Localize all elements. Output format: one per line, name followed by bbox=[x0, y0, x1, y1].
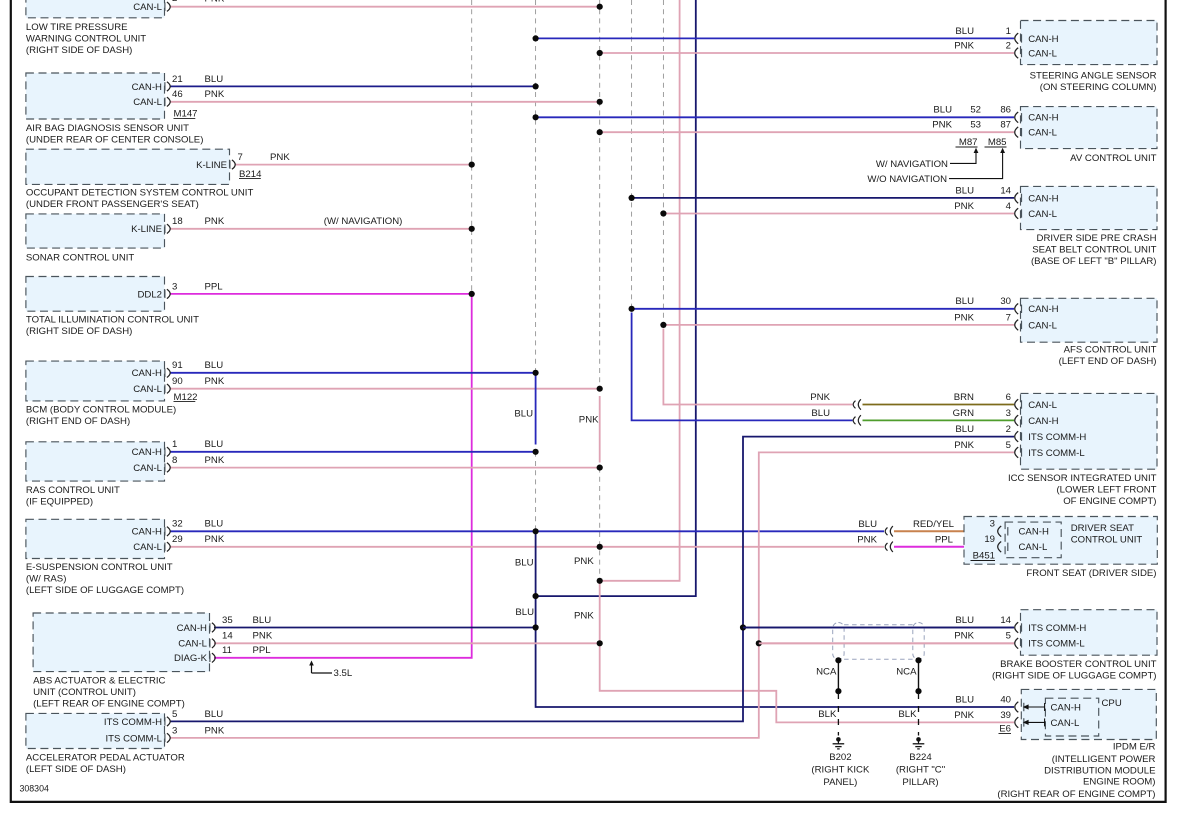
svg-text:PNK: PNK bbox=[205, 216, 225, 227]
svg-text:(LEFT REAR OF ENGINE COMPT): (LEFT REAR OF ENGINE COMPT) bbox=[33, 698, 185, 709]
svg-text:CAN-L: CAN-L bbox=[1028, 320, 1057, 331]
svg-text:B202: B202 bbox=[829, 752, 851, 763]
svg-text:PPL: PPL bbox=[205, 281, 224, 292]
svg-text:14: 14 bbox=[222, 631, 233, 642]
caption ground B224 bbox=[896, 752, 945, 788]
inline connector on ICC CAN-H wire bbox=[853, 417, 855, 425]
svg-text:BLU: BLU bbox=[955, 694, 974, 705]
svg-text:2: 2 bbox=[172, 0, 177, 4]
svg-text:PNK: PNK bbox=[954, 631, 974, 642]
caption: BRAKE BOOSTER CONTROL UNIT bbox=[992, 659, 1157, 682]
wire PNK: E-SUSPENSION CAN-L pin29 to inline connector bbox=[170, 546, 884, 548]
svg-text:1: 1 bbox=[172, 439, 177, 450]
node: ABS CAN-H on rail536 bbox=[533, 624, 539, 630]
svg-text:W/O NAVIGATION: W/O NAVIGATION bbox=[867, 174, 947, 185]
control unit box: STEERING ANGLE SENSOR bbox=[1021, 21, 1158, 65]
svg-text:(W/ RAS): (W/ RAS) bbox=[26, 574, 67, 585]
control unit box: IPDM E/R bbox=[1021, 689, 1156, 739]
ground symbol B224 bbox=[913, 737, 925, 749]
control unit box: DRIVER SEAT CONTROL UNIT inner bbox=[1005, 522, 1061, 558]
svg-text:OCCUPANT DETECTION SYSTEM CONT: OCCUPANT DETECTION SYSTEM CONTROL UNIT bbox=[26, 188, 254, 199]
svg-text:K-LINE: K-LINE bbox=[196, 160, 227, 171]
svg-text:TOTAL ILLUMINATION CONTROL UNI: TOTAL ILLUMINATION CONTROL UNIT bbox=[26, 315, 199, 326]
svg-text:AIR BAG DIAGNOSIS SENSOR UNIT: AIR BAG DIAGNOSIS SENSOR UNIT bbox=[26, 123, 189, 134]
svg-text:1: 1 bbox=[1006, 26, 1011, 37]
wire BLK dashed to ground B224 bbox=[918, 693, 920, 736]
svg-text:ITS COMM-L: ITS COMM-L bbox=[1028, 448, 1085, 459]
node: PRE CRASH CAN-L on rail664 bbox=[660, 210, 666, 216]
svg-text:7: 7 bbox=[1006, 312, 1011, 323]
control unit box: BRAKE BOOSTER CONTROL UNIT bbox=[1021, 610, 1158, 656]
wire PNK: rail600 segment down, jog to IPDM CAN-L pin39 bbox=[600, 581, 1014, 723]
caption: OCCUPANT DETECTION SYSTEM CONTROL UNIT bbox=[26, 188, 254, 211]
control unit box: BCM (BODY CONTROL MODULE) bbox=[26, 361, 165, 401]
CAN-H blue bus vertical x=695.8 with corner to rail 536 bbox=[536, 0, 696, 596]
svg-text:DRIVER SEAT: DRIVER SEAT bbox=[1071, 523, 1134, 534]
svg-text:PPL: PPL bbox=[253, 645, 272, 656]
svg-text:11: 11 bbox=[222, 645, 232, 656]
wire BLU: BCM CAN-H pin91 to rail536 bbox=[170, 372, 536, 374]
svg-text:CAN-H: CAN-H bbox=[1028, 304, 1058, 315]
wire BLU: rail632 to AFS CONTROL UNIT CAN-H pin30 bbox=[632, 308, 1014, 310]
control unit box: E-SUSPENSION CONTROL UNIT bbox=[26, 519, 165, 558]
svg-text:K-LINE: K-LINE bbox=[131, 224, 162, 235]
svg-text:PNK: PNK bbox=[954, 440, 974, 451]
wire PNK re-stroke over shield (BRAKE BOOSTER ITS COMM-L) bbox=[759, 642, 1014, 644]
labels PNK/BLU left of ICC inline connectors bbox=[810, 392, 830, 419]
svg-text:CAN-L: CAN-L bbox=[133, 2, 162, 13]
svg-text:PNK: PNK bbox=[579, 414, 599, 425]
svg-text:BLK: BLK bbox=[818, 709, 837, 720]
svg-text:ITS COMM-L: ITS COMM-L bbox=[1028, 639, 1085, 650]
svg-text:BLU: BLU bbox=[205, 519, 224, 530]
svg-text:BRAKE BOOSTER CONTROL UNIT: BRAKE BOOSTER CONTROL UNIT bbox=[1000, 659, 1157, 670]
svg-text:CAN-L: CAN-L bbox=[133, 542, 162, 553]
svg-text:87: 87 bbox=[1000, 120, 1011, 131]
bus rail (dashed) x=599.7 upper bbox=[599, 0, 601, 389]
wire BLU: rail632 to DRIVER SIDE PRE CRASH CAN-H pin14 bbox=[632, 197, 1014, 199]
inline connector on DRIVER SEAT CAN-H wire bbox=[885, 528, 887, 536]
connector name M147 bbox=[174, 109, 198, 120]
svg-text:CAN-L: CAN-L bbox=[1051, 718, 1080, 729]
svg-text:35: 35 bbox=[222, 615, 233, 626]
wire PNK: rail600 segment BCM to RAS bbox=[599, 396, 601, 463]
wire BLU: AIR BAG CAN-H pin21 to rail536 bbox=[170, 85, 536, 87]
svg-text:91: 91 bbox=[172, 360, 183, 371]
svg-text:ACCELERATOR PEDAL ACTUATOR: ACCELERATOR PEDAL ACTUATOR bbox=[26, 753, 185, 764]
svg-text:5: 5 bbox=[172, 709, 177, 720]
ground symbol B202 bbox=[833, 737, 845, 749]
svg-text:IPDM E/R: IPDM E/R bbox=[1113, 742, 1156, 753]
svg-text:FRONT SEAT (DRIVER SIDE): FRONT SEAT (DRIVER SIDE) bbox=[1026, 568, 1156, 579]
node: blue bus joins rail536 bbox=[533, 593, 539, 599]
node: SONAR K-LINE on rail472 bbox=[469, 226, 475, 232]
svg-text:CAN-L: CAN-L bbox=[1028, 209, 1057, 220]
svg-text:CAN-L: CAN-L bbox=[178, 639, 207, 650]
wire BLU: rail536 segment E-SUSP down, corner right to IPDM CAN-H pin40 bbox=[536, 534, 1014, 707]
wire BLU: tap to BRAKE BOOSTER ITS COMM-H pin14 bbox=[743, 627, 1014, 629]
svg-text:PNK: PNK bbox=[857, 535, 877, 546]
control unit box: TOTAL ILLUMINATION CONTROL UNIT bbox=[26, 277, 165, 312]
wire BLU: rail536 segment BCM to RAS bbox=[535, 375, 537, 445]
wire PNK: OCCUPANT DETECTION K-LINE pin7 to rail472 bbox=[236, 164, 472, 166]
svg-text:CONTROL UNIT: CONTROL UNIT bbox=[1071, 535, 1143, 546]
svg-text:6: 6 bbox=[1006, 392, 1011, 403]
svg-text:46: 46 bbox=[172, 89, 183, 100]
svg-text:BCM (BODY CONTROL MODULE): BCM (BODY CONTROL MODULE) bbox=[26, 405, 176, 416]
connector name B214 bbox=[239, 169, 262, 180]
control unit box: DRIVER SIDE PRE CRASH SEAT BELT CONTROL UNIT bbox=[1021, 186, 1158, 229]
svg-text:ITS COMM-H: ITS COMM-H bbox=[104, 717, 162, 728]
control unit box: OCCUPANT DETECTION SYSTEM CONTROL UNIT bbox=[26, 149, 230, 184]
svg-text:ITS COMM-H: ITS COMM-H bbox=[1028, 432, 1086, 443]
wire PNK: rail600 to STEERING ANGLE SENSOR CAN-L pin2 bbox=[600, 52, 1014, 54]
CAN-L pink bus vertical x=679.6 with corner to rail 600 bbox=[600, 0, 680, 581]
wire RED/YEL: inline connector to DRIVER SEAT CAN-H pin3 bbox=[894, 530, 998, 532]
caption: ACCELERATOR PEDAL ACTUATOR bbox=[26, 753, 185, 776]
svg-text:2: 2 bbox=[1006, 424, 1011, 435]
wire BLU: rail536 to AV CONTROL UNIT CAN-H bbox=[536, 116, 1014, 118]
control unit box: AIR BAG DIAGNOSIS SENSOR UNIT bbox=[26, 73, 165, 119]
shield capsule at x=838.4 bbox=[833, 623, 844, 660]
svg-text:8: 8 bbox=[172, 455, 177, 466]
shield drain wire NCA at x=918.5 bbox=[918, 660, 920, 691]
svg-text:(W/ NAVIGATION): (W/ NAVIGATION) bbox=[324, 216, 403, 227]
node: E-SUSP CAN-H on rail536 bbox=[533, 528, 539, 534]
svg-text:(LEFT END OF DASH): (LEFT END OF DASH) bbox=[1059, 356, 1157, 367]
shield drain wire NCA at x=838.4 bbox=[837, 660, 839, 691]
wire BLU re-stroke over shield (BRAKE BOOSTER ITS COMM-H) bbox=[743, 627, 1014, 629]
svg-text:21: 21 bbox=[172, 74, 183, 85]
svg-text:7: 7 bbox=[238, 152, 243, 163]
wire PNK: BCM CAN-L pin90 to rail600 bbox=[170, 388, 600, 390]
svg-text:CAN-L: CAN-L bbox=[1028, 128, 1057, 139]
svg-text:(RIGHT SIDE OF LUGGAGE COMPT): (RIGHT SIDE OF LUGGAGE COMPT) bbox=[992, 670, 1157, 681]
svg-text:BLU: BLU bbox=[515, 557, 534, 568]
caption: LOW TIRE PRESSURE WARNING CONTROL UNIT bbox=[26, 22, 146, 56]
label DRIVER SEAT CONTROL UNIT bbox=[1071, 523, 1143, 546]
svg-text:PNK: PNK bbox=[205, 455, 225, 466]
svg-text:CAN-H: CAN-H bbox=[132, 527, 162, 538]
svg-text:ICC SENSOR INTEGRATED UNIT: ICC SENSOR INTEGRATED UNIT bbox=[1008, 473, 1157, 484]
svg-text:(INTELLIGENT POWER: (INTELLIGENT POWER bbox=[1052, 754, 1156, 765]
svg-text:(RIGHT REAR OF ENGINE COMPT): (RIGHT REAR OF ENGINE COMPT) bbox=[997, 789, 1155, 800]
svg-text:GRN: GRN bbox=[953, 408, 974, 419]
bus rail (dashed) x=599.7 mid bbox=[599, 468, 601, 581]
svg-text:5: 5 bbox=[1006, 440, 1011, 451]
connector names M87 M85 bbox=[956, 137, 1007, 148]
svg-text:B224: B224 bbox=[909, 752, 932, 763]
wire BRN: inline connector to ICC SENSOR CAN-L pin6 bbox=[863, 404, 1015, 406]
svg-text:BLK: BLK bbox=[898, 709, 917, 720]
annotation W/ NAVIGATION with arrow to M87 bbox=[876, 148, 979, 170]
svg-text:UNIT (CONTROL UNIT): UNIT (CONTROL UNIT) bbox=[33, 687, 136, 698]
shield dashed link line bottom bbox=[844, 658, 913, 660]
svg-text:(BASE OF LEFT "B" PILLAR): (BASE OF LEFT "B" PILLAR) bbox=[1031, 256, 1157, 267]
caption: STEERING ANGLE SENSOR bbox=[1030, 70, 1157, 93]
svg-text:CAN-H: CAN-H bbox=[132, 82, 162, 93]
caption: E-SUSPENSION CONTROL UNIT bbox=[26, 562, 184, 596]
node: E-SUSP CAN-L on rail600 bbox=[597, 544, 603, 550]
node: AV CAN-L on rail600 bbox=[597, 129, 603, 135]
svg-text:BLU: BLU bbox=[955, 296, 974, 307]
svg-text:2: 2 bbox=[1006, 40, 1011, 51]
svg-text:BLU: BLU bbox=[955, 424, 974, 435]
svg-text:PNK: PNK bbox=[205, 534, 225, 545]
svg-text:PNK: PNK bbox=[954, 40, 974, 51]
svg-text:PNK: PNK bbox=[205, 0, 225, 5]
caption ground B202 bbox=[811, 752, 870, 788]
node: BCM CAN-L on rail600 bbox=[597, 386, 603, 392]
svg-text:BLU: BLU bbox=[955, 615, 974, 626]
svg-text:DIAG-K: DIAG-K bbox=[174, 653, 208, 664]
node: OCCUPANT K-LINE on rail472 bbox=[469, 162, 475, 168]
svg-text:(LEFT SIDE OF DASH): (LEFT SIDE OF DASH) bbox=[26, 764, 126, 775]
inner box: CPU bbox=[1045, 698, 1098, 736]
svg-text:BLU: BLU bbox=[205, 360, 224, 371]
svg-text:CAN-H: CAN-H bbox=[1028, 416, 1058, 427]
inline connector on ICC CAN-L wire bbox=[853, 401, 855, 409]
svg-text:29: 29 bbox=[172, 534, 183, 545]
svg-text:(ON STEERING COLUMN): (ON STEERING COLUMN) bbox=[1040, 82, 1157, 93]
bus rail (dashed) x=631.6 bbox=[631, 0, 633, 309]
svg-text:LOW TIRE PRESSURE: LOW TIRE PRESSURE bbox=[26, 22, 128, 33]
svg-text:BLU: BLU bbox=[933, 105, 952, 116]
wire PNK: ABS CAN-L pin14 to rail600 bbox=[214, 642, 600, 644]
svg-text:(LEFT SIDE OF LUGGAGE COMPT): (LEFT SIDE OF LUGGAGE COMPT) bbox=[26, 585, 184, 596]
svg-text:BLU: BLU bbox=[205, 709, 224, 720]
svg-text:52: 52 bbox=[970, 105, 981, 116]
svg-text:STEERING ANGLE SENSOR: STEERING ANGLE SENSOR bbox=[1030, 70, 1157, 81]
svg-text:BLU: BLU bbox=[811, 408, 830, 419]
svg-text:M147: M147 bbox=[174, 109, 198, 120]
svg-text:CAN-H: CAN-H bbox=[1051, 702, 1081, 713]
svg-text:(RIGHT SIDE OF DASH): (RIGHT SIDE OF DASH) bbox=[26, 326, 132, 337]
wire BLU: E-SUSPENSION CAN-H pin32 to inline connector bbox=[170, 530, 884, 532]
svg-text:PPL: PPL bbox=[935, 535, 954, 546]
wire PNK: rail600 to AV CONTROL UNIT CAN-L bbox=[600, 131, 1014, 133]
control unit box: SONAR CONTROL UNIT bbox=[26, 214, 165, 248]
svg-text:308304: 308304 bbox=[20, 784, 49, 794]
svg-text:(RIGHT KICK: (RIGHT KICK bbox=[811, 764, 870, 775]
svg-text:3.5L: 3.5L bbox=[334, 668, 353, 679]
svg-text:PNK: PNK bbox=[574, 610, 594, 621]
node: AV CAN-H on rail536 bbox=[533, 114, 539, 120]
bus rail (dashed) x=663.4 bbox=[662, 0, 664, 325]
wire BLU: RAS CAN-H pin1 to rail536 bbox=[170, 451, 536, 453]
svg-text:(RIGHT END OF DASH): (RIGHT END OF DASH) bbox=[26, 416, 130, 427]
connector name M122 bbox=[174, 392, 198, 403]
wire PNK: AIR BAG CAN-L pin46 to rail600 bbox=[170, 101, 600, 103]
svg-text:PNK: PNK bbox=[270, 152, 290, 163]
svg-text:5: 5 bbox=[1006, 631, 1011, 642]
svg-text:PNK: PNK bbox=[205, 376, 225, 387]
connector name E6 bbox=[999, 724, 1012, 735]
svg-text:SEAT BELT CONTROL UNIT: SEAT BELT CONTROL UNIT bbox=[1032, 244, 1156, 255]
caption: ABS ACTUATOR & ELECTRIC UNIT bbox=[33, 675, 185, 709]
wire PPL: inline connector to DRIVER SEAT CAN-L pin19 bbox=[894, 546, 998, 548]
svg-text:AFS CONTROL UNIT: AFS CONTROL UNIT bbox=[1064, 345, 1157, 356]
bus rail (dashed) x=471.7 bbox=[471, 0, 473, 294]
svg-text:CAN-L: CAN-L bbox=[133, 463, 162, 474]
svg-text:53: 53 bbox=[970, 120, 981, 131]
wire GRN: inline connector to ICC SENSOR CAN-H pin3 bbox=[863, 419, 1015, 421]
wire BLK dashed to ground B202 bbox=[837, 693, 839, 736]
caption: ICC SENSOR INTEGRATED UNIT bbox=[1008, 473, 1157, 507]
svg-text:NCA: NCA bbox=[896, 667, 917, 678]
svg-text:3: 3 bbox=[172, 281, 177, 292]
svg-text:39: 39 bbox=[1000, 710, 1011, 721]
svg-text:PNK: PNK bbox=[205, 89, 225, 100]
svg-text:ITS COMM-L: ITS COMM-L bbox=[106, 733, 163, 744]
svg-text:CAN-L: CAN-L bbox=[133, 97, 162, 108]
node: STEERING CAN-H on rail536 bbox=[533, 35, 539, 41]
control unit box: RAS CONTROL UNIT bbox=[26, 442, 165, 481]
wire BLU: ACCELERATOR ITS COMM-H pin5 up vertical x743 to ICC ITS COMM-H pin2 bbox=[170, 437, 1014, 722]
svg-text:(UNDER REAR OF CENTER CONSOLE): (UNDER REAR OF CENTER CONSOLE) bbox=[26, 134, 204, 145]
annotation W/O NAVIGATION with arrow to M85 bbox=[867, 148, 1005, 185]
control unit box: LOW TIRE PRESSURE WARNING CONTROL UNIT bbox=[26, 0, 165, 18]
node: AIR BAG CAN-L on rail600 bbox=[597, 99, 603, 105]
svg-text:4: 4 bbox=[1006, 201, 1012, 212]
caption: BCM (BODY CONTROL MODULE) bbox=[26, 405, 176, 428]
svg-text:CAN-L: CAN-L bbox=[1028, 400, 1057, 411]
node: PRE CRASH CAN-H on rail632 bbox=[629, 195, 635, 201]
node: STEERING CAN-L on rail600 bbox=[597, 50, 603, 56]
node: pink bus joins rail600 bbox=[597, 578, 603, 584]
svg-text:18: 18 bbox=[172, 216, 183, 227]
svg-text:PILLAR): PILLAR) bbox=[902, 777, 938, 788]
wire PNK: rail664 segment down to ICC SENSOR CAN-L row bbox=[663, 329, 852, 405]
wire PNK: tap to BRAKE BOOSTER ITS COMM-L pin5 bbox=[759, 642, 1014, 644]
svg-text:PNK: PNK bbox=[954, 201, 974, 212]
wire PPL: TOTAL ILLUMINATION DDL2 pin3 down rail472 to ABS DIAG-K pin11 bbox=[170, 294, 472, 658]
svg-text:BLU: BLU bbox=[205, 74, 224, 85]
svg-text:BLU: BLU bbox=[205, 439, 224, 450]
svg-text:AV CONTROL UNIT: AV CONTROL UNIT bbox=[1070, 153, 1156, 164]
svg-text:CAN-H: CAN-H bbox=[132, 447, 162, 458]
svg-text:DISTRIBUTION MODULE: DISTRIBUTION MODULE bbox=[1044, 765, 1155, 776]
svg-text:RED/YEL: RED/YEL bbox=[913, 519, 955, 530]
svg-text:CAN-L: CAN-L bbox=[1028, 48, 1057, 59]
svg-text:NCA: NCA bbox=[816, 667, 837, 678]
svg-text:PNK: PNK bbox=[574, 556, 594, 567]
svg-text:90: 90 bbox=[172, 376, 183, 387]
svg-text:PNK: PNK bbox=[253, 631, 273, 642]
wire PNK: ACCELERATOR ITS COMM-L pin3 up vertical x759 to ICC ITS COMM-L pin5 bbox=[170, 452, 1014, 738]
connector name B451 bbox=[971, 551, 996, 562]
svg-text:CPU: CPU bbox=[1102, 698, 1122, 709]
svg-text:W/ NAVIGATION: W/ NAVIGATION bbox=[876, 159, 948, 170]
svg-text:BLU: BLU bbox=[515, 607, 534, 618]
svg-text:DDL2: DDL2 bbox=[137, 289, 162, 300]
node: AFS CAN-L on rail664 bbox=[660, 322, 666, 328]
shield capsule at x=918.5 bbox=[913, 623, 924, 660]
wire PNK: rail664 to DRIVER SIDE PRE CRASH CAN-L pin4 bbox=[663, 213, 1014, 215]
svg-text:CAN-H: CAN-H bbox=[1028, 113, 1058, 124]
svg-text:BLU: BLU bbox=[858, 519, 877, 530]
svg-text:BLU: BLU bbox=[514, 409, 533, 420]
svg-text:3: 3 bbox=[172, 725, 177, 736]
svg-text:3: 3 bbox=[990, 519, 995, 530]
annotation arrow 3.5L bbox=[309, 661, 353, 680]
inline connector on DRIVER SEAT CAN-L wire bbox=[885, 543, 887, 551]
svg-text:BLU: BLU bbox=[253, 615, 272, 626]
wire PNK: RAS CAN-L pin8 to rail600 bbox=[170, 467, 600, 469]
control unit box: AV CONTROL UNIT bbox=[1021, 107, 1158, 149]
caption: IPDM E/R bbox=[997, 742, 1155, 801]
labels BLU / RED-YEL on driver seat CAN-H wire bbox=[858, 519, 954, 530]
node: BRAKE BOOSTER ITS COMM-H tap bbox=[740, 624, 746, 630]
svg-text:CAN-L: CAN-L bbox=[133, 384, 162, 395]
caption: RAS CONTROL UNIT bbox=[26, 485, 120, 508]
wire PNK: SONAR K-LINE pin18 to rail472 bbox=[170, 228, 472, 230]
caption: DRIVER SIDE PRE CRASH SEAT BELT CONTROL UNIT bbox=[1031, 233, 1157, 267]
svg-text:WARNING CONTROL UNIT: WARNING CONTROL UNIT bbox=[26, 34, 146, 45]
svg-text:CAN-L: CAN-L bbox=[1019, 542, 1048, 553]
bus rail (dashed) x=535.6 upper bbox=[535, 0, 537, 373]
svg-text:PNK: PNK bbox=[932, 120, 952, 131]
svg-text:OF ENGINE COMPT): OF ENGINE COMPT) bbox=[1063, 496, 1156, 507]
node: RAS CAN-L on rail600 bbox=[597, 465, 603, 471]
caption: AFS CONTROL UNIT bbox=[1059, 345, 1157, 368]
wire BLU: ABS CAN-H pin35 to rail536 bbox=[214, 627, 536, 629]
svg-text:PNK: PNK bbox=[810, 392, 830, 403]
node: LOW TIRE CAN-L on rail600 bbox=[597, 4, 603, 10]
bus rail (dashed) x=535.6 mid bbox=[535, 452, 537, 532]
caption: AIR BAG DIAGNOSIS SENSOR UNIT bbox=[26, 123, 204, 146]
control unit box: ABS ACTUATOR & ELECTRIC UNIT bbox=[33, 613, 209, 672]
node: ABS CAN-L on rail600 bbox=[597, 640, 603, 646]
svg-text:PNK: PNK bbox=[954, 312, 974, 323]
svg-text:86: 86 bbox=[1000, 105, 1011, 116]
svg-text:CAN-H: CAN-H bbox=[177, 623, 207, 634]
control unit box: AFS CONTROL UNIT bbox=[1021, 298, 1158, 342]
svg-text:BRN: BRN bbox=[954, 392, 974, 403]
svg-text:RAS CONTROL UNIT: RAS CONTROL UNIT bbox=[26, 485, 120, 496]
svg-text:CAN-H: CAN-H bbox=[1028, 193, 1058, 204]
node: AIR BAG CAN-H on rail536 bbox=[533, 83, 539, 89]
svg-text:(RIGHT SIDE OF DASH): (RIGHT SIDE OF DASH) bbox=[26, 45, 132, 56]
shield dashed link line top bbox=[844, 624, 913, 626]
svg-text:E-SUSPENSION CONTROL UNIT: E-SUSPENSION CONTROL UNIT bbox=[26, 562, 173, 573]
svg-text:(IF EQUIPPED): (IF EQUIPPED) bbox=[26, 496, 93, 507]
control unit box: ICC SENSOR INTEGRATED UNIT bbox=[1021, 393, 1158, 469]
svg-text:19: 19 bbox=[984, 534, 995, 545]
node: DDL2 corner on rail472 bbox=[469, 291, 475, 297]
svg-text:BLU: BLU bbox=[955, 185, 974, 196]
svg-text:PNK: PNK bbox=[205, 725, 225, 736]
svg-text:CAN-H: CAN-H bbox=[1019, 527, 1049, 538]
svg-text:14: 14 bbox=[1000, 615, 1011, 626]
svg-text:30: 30 bbox=[1000, 296, 1011, 307]
svg-text:32: 32 bbox=[172, 519, 183, 530]
node: BRAKE BOOSTER ITS COMM-L tap bbox=[756, 640, 762, 646]
node: AFS CAN-H on rail632 bbox=[629, 306, 635, 312]
caption: SONAR CONTROL UNIT bbox=[26, 253, 135, 264]
caption: TOTAL ILLUMINATION CONTROL UNIT bbox=[26, 315, 199, 338]
wire BLU: rail536 to STEERING ANGLE SENSOR CAN-H pin1 bbox=[536, 37, 1014, 39]
wire PNK: rail664 to AFS CONTROL UNIT CAN-L pin7 bbox=[663, 324, 1014, 326]
svg-text:ITS COMM-H: ITS COMM-H bbox=[1028, 623, 1086, 634]
node: RAS CAN-H on rail536 bbox=[533, 449, 539, 455]
svg-text:3: 3 bbox=[1006, 408, 1011, 419]
wire BLU: rail632 segment down to ICC SENSOR CAN-H row bbox=[632, 313, 853, 421]
control unit box: FRONT SEAT (DRIVER SIDE) outer bbox=[964, 517, 1157, 565]
svg-text:(RIGHT "C": (RIGHT "C" bbox=[896, 764, 945, 775]
svg-text:14: 14 bbox=[1000, 185, 1011, 196]
svg-text:CAN-H: CAN-H bbox=[1028, 34, 1058, 45]
